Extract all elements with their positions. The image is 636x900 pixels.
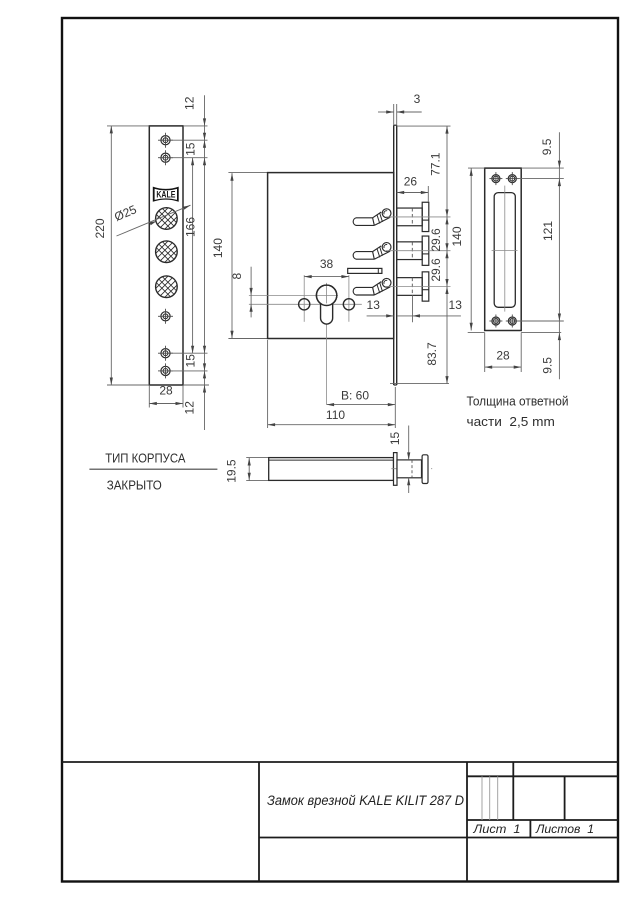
svg-text:29.6: 29.6	[429, 228, 443, 252]
svg-text:ЗАКРЫТО: ЗАКРЫТО	[107, 478, 162, 493]
svg-text:12: 12	[183, 96, 197, 110]
svg-text:77.1: 77.1	[429, 152, 443, 176]
svg-text:12: 12	[182, 401, 196, 415]
svg-text:26: 26	[404, 174, 418, 188]
svg-text:3: 3	[414, 92, 421, 106]
svg-text:19.5: 19.5	[224, 459, 238, 483]
svg-text:Замок врезной KALE KILIT 287 D: Замок врезной KALE KILIT 287 D	[267, 793, 464, 808]
svg-text:140: 140	[450, 226, 464, 246]
svg-text:28: 28	[159, 383, 173, 397]
svg-text:110: 110	[326, 408, 345, 422]
svg-text:Листов 1: Листов 1	[535, 822, 594, 836]
svg-text:220: 220	[93, 218, 107, 238]
svg-text:29.6: 29.6	[429, 258, 443, 282]
svg-text:15: 15	[184, 354, 198, 368]
svg-text:части 2,5 mm: части 2,5 mm	[467, 415, 555, 429]
svg-text:9.5: 9.5	[540, 357, 554, 374]
svg-text:8: 8	[230, 273, 244, 280]
svg-text:9.5: 9.5	[540, 138, 554, 155]
svg-text:Толщина ответной: Толщина ответной	[467, 395, 569, 409]
svg-text:KALE: KALE	[156, 190, 175, 200]
svg-text:B: 60: B: 60	[341, 389, 369, 403]
svg-text:ТИП КОРПУСА: ТИП КОРПУСА	[105, 450, 186, 465]
svg-text:166: 166	[183, 217, 197, 237]
svg-text:83.7: 83.7	[425, 342, 439, 366]
svg-text:Лист 1: Лист 1	[472, 822, 520, 836]
svg-text:140: 140	[211, 238, 225, 258]
svg-text:15: 15	[388, 432, 402, 446]
svg-text:15: 15	[183, 142, 197, 156]
svg-text:28: 28	[496, 348, 510, 362]
svg-text:38: 38	[320, 257, 334, 271]
svg-text:13: 13	[449, 298, 463, 312]
svg-text:13: 13	[367, 298, 381, 312]
svg-text:121: 121	[541, 221, 555, 241]
